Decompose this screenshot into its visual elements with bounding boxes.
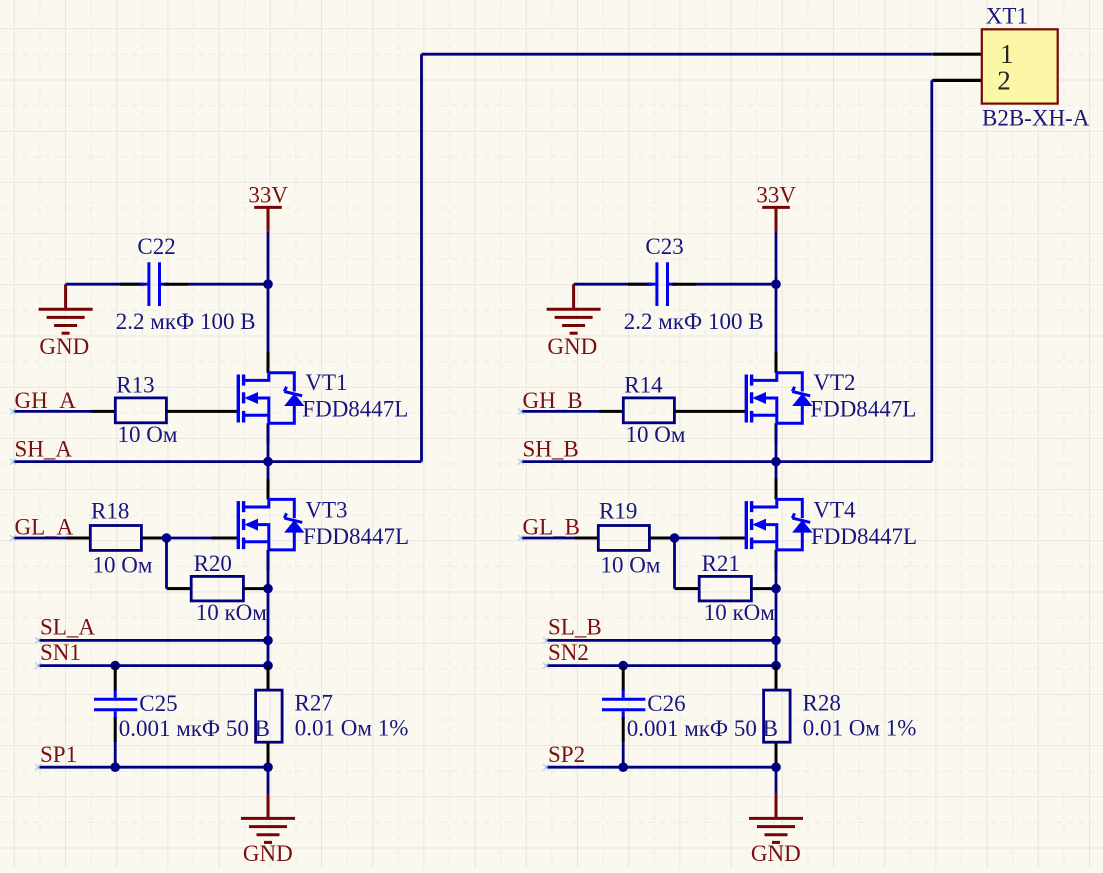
junction rail/SP2 [771, 762, 781, 772]
pin XT1.2 [933, 79, 982, 82]
ground GND bottom (A) [241, 793, 295, 842]
wire SP1 [38, 766, 268, 769]
pin VT3 source [267, 550, 270, 570]
wire GH_B [521, 410, 600, 413]
wire SL_B [546, 639, 776, 642]
wire C22 to rail [188, 283, 268, 286]
svg-text:10 Ом: 10 Ом [601, 553, 661, 578]
capacitor C26 [602, 690, 645, 720]
wire top SH_A to XT1 pin 1 [422, 53, 933, 56]
wire SP2 [546, 766, 776, 769]
pin R19.1 [574, 537, 598, 540]
svg-text:33V: 33V [248, 182, 288, 207]
wire SP2 node to ground [775, 767, 778, 794]
pin R27.1 [267, 666, 270, 691]
svg-text:GND: GND [243, 841, 293, 866]
resistor R21 [699, 576, 751, 601]
svg-text:GH_A: GH_A [15, 388, 77, 413]
pin VT1 source [267, 423, 270, 443]
wire SN2 [546, 664, 776, 667]
svg-text:2.2 мкФ 100 В: 2.2 мкФ 100 В [624, 309, 764, 334]
pin C22.2 [165, 283, 189, 286]
pin C22.1 [120, 283, 144, 286]
svg-text:R18: R18 [91, 499, 129, 524]
pin R18.1 [66, 537, 90, 540]
svg-text:10 кОм: 10 кОм [196, 600, 268, 625]
pin R28.1 [775, 666, 778, 691]
svg-text:SP2: SP2 [548, 742, 585, 767]
svg-text:GL_B: GL_B [523, 515, 581, 540]
pin R14.1 [599, 410, 623, 413]
pin VT4 drain [775, 479, 778, 500]
svg-text:R19: R19 [599, 499, 637, 524]
svg-text:C25: C25 [139, 691, 177, 716]
svg-text:B2B-XH-A: B2B-XH-A [982, 106, 1090, 131]
svg-text:SN2: SN2 [548, 640, 589, 665]
svg-text:10 Ом: 10 Ом [626, 422, 686, 447]
wire SN1 [38, 664, 268, 667]
junction rail/SL_A [263, 636, 273, 646]
pin C26.1 [622, 666, 625, 691]
junction SN1/C25 [110, 661, 120, 671]
svg-text:VT1: VT1 [305, 370, 347, 395]
pin R28.2 [775, 742, 778, 767]
pin C26.2 [622, 717, 625, 742]
wire SH_A [13, 460, 422, 463]
junction rail/R21 [771, 584, 781, 594]
svg-text:FDD8447L: FDD8447L [303, 524, 409, 549]
wire VT2 source to SH_B node [775, 423, 778, 461]
svg-text:FDD8447L: FDD8447L [302, 396, 408, 421]
wire GL_B [521, 537, 575, 540]
svg-text:XT1: XT1 [986, 4, 1028, 29]
wire R18 to gate of VT3 [167, 537, 213, 540]
pin R19.2 [649, 537, 674, 540]
pin R18.2 [141, 537, 166, 540]
pin C23.1 [628, 283, 652, 286]
wire VT1 source to SH_A node [267, 423, 270, 461]
wire C26 to SP2 [622, 742, 625, 767]
pin VT4 source [775, 550, 778, 570]
resistor R28 (shunt) [764, 690, 791, 742]
transistor VT2 FDD8447L [746, 373, 811, 424]
svg-text:0.001 мкФ 50 В: 0.001 мкФ 50 В [627, 716, 778, 741]
pin R20.1 [168, 587, 192, 590]
svg-text:GND: GND [547, 334, 597, 359]
svg-text:C23: C23 [645, 234, 683, 259]
svg-text:GH_B: GH_B [523, 388, 583, 413]
power port 33V (A) [254, 207, 282, 231]
wire GND to C22 [66, 283, 143, 286]
junction SP2/C26 [618, 762, 628, 772]
svg-text:0.01 Ом 1%: 0.01 Ом 1% [803, 715, 917, 740]
wire C23 to rail [696, 283, 776, 286]
junction rail/R20 [263, 584, 273, 594]
pin R13.2 / gate pin of VT1 [166, 410, 237, 413]
pin R21.2 [751, 587, 776, 590]
pin VT1 drain [267, 352, 270, 373]
wire corner to R20 [167, 587, 193, 590]
wire SP1 node to ground [267, 767, 270, 794]
junction rail/SP1 [263, 762, 273, 772]
connector XT1 body [982, 29, 1058, 103]
pin R21.1 [676, 587, 700, 590]
resistor R27 (shunt) [256, 690, 283, 742]
svg-text:R14: R14 [624, 373, 663, 398]
svg-text:FDD8447L: FDD8447L [810, 396, 916, 421]
svg-text:SP1: SP1 [40, 742, 77, 767]
junction GL_B/R21 [670, 533, 680, 543]
wire SH_B node to drain of VT4 [775, 462, 778, 500]
wire R19 to gate of VT4 [675, 537, 721, 540]
svg-text:VT3: VT3 [305, 498, 347, 523]
wire SL_A [38, 639, 268, 642]
wire SH_B vertical riser to XT1 pin 2 [930, 80, 933, 461]
svg-text:GND: GND [39, 334, 89, 359]
ground GND top (A) [39, 284, 93, 333]
wire SH_B corner at XT1 pin 2 [932, 79, 933, 82]
power port 33V (B) [762, 207, 790, 231]
svg-text:R20: R20 [194, 551, 232, 576]
svg-text:SH_B: SH_B [523, 437, 579, 462]
wire SH_A node to drain of VT3 [267, 462, 270, 500]
svg-text:GL_A: GL_A [15, 515, 74, 540]
pin VT3 drain [267, 479, 270, 500]
svg-text:SL_A: SL_A [40, 615, 95, 640]
resistor R19 [598, 526, 649, 551]
pin R13.1 [91, 410, 115, 413]
junction GL_A/R20 [162, 533, 172, 543]
wire 33V rail to drain of VT1 [267, 232, 270, 373]
wire GL_A [13, 537, 67, 540]
ground GND top (B) [547, 284, 601, 333]
svg-text:10 кОм: 10 кОм [704, 600, 776, 625]
pin C25.2 [114, 717, 117, 742]
wire VT4 source down rail [775, 550, 778, 666]
pin gate of VT3 [212, 537, 238, 540]
ground GND bottom (B) [749, 793, 803, 842]
junction SN2/C26 [618, 661, 628, 671]
pin C25.1 [114, 666, 117, 691]
wire VT3 source down rail [267, 550, 270, 666]
svg-text:33V: 33V [756, 182, 796, 207]
junction rail/SL_B [771, 636, 781, 646]
pin gate of VT4 [720, 537, 746, 540]
junction rail/SN2 [771, 661, 781, 671]
svg-text:SH_A: SH_A [15, 437, 73, 462]
svg-text:R13: R13 [116, 373, 154, 398]
wire GL_A branch down to R20 [165, 538, 168, 589]
capacitor C22 [140, 262, 169, 306]
transistor VT1 FDD8447L [238, 373, 303, 424]
svg-text:0.001 мкФ 50 В: 0.001 мкФ 50 В [119, 716, 270, 741]
junction rail/C22 [263, 279, 273, 289]
wire SH_B [521, 460, 932, 463]
svg-text:FDD8447L: FDD8447L [811, 524, 917, 549]
wire GL_B branch down to R21 [673, 538, 676, 589]
junction rail/SH_A [263, 457, 273, 467]
svg-text:0.01 Ом 1%: 0.01 Ом 1% [295, 715, 409, 740]
wire 33V rail to drain of VT2 [775, 232, 778, 373]
junction rail/C23 [771, 279, 781, 289]
pin VT2 source [775, 423, 778, 443]
resistor R20 [191, 576, 243, 601]
junction rail/SH_B [771, 457, 781, 467]
svg-text:VT4: VT4 [813, 498, 856, 523]
svg-text:10 Ом: 10 Ом [93, 553, 153, 578]
pin R14.2 / gate pin of VT2 [674, 410, 745, 413]
wire C25 to SP1 [114, 742, 117, 767]
pin R27.2 [267, 742, 270, 767]
resistor R14 [623, 398, 674, 423]
svg-text:R28: R28 [803, 691, 841, 716]
svg-text:C26: C26 [647, 691, 685, 716]
svg-text:GND: GND [751, 841, 801, 866]
svg-text:C22: C22 [137, 234, 175, 259]
wire corner to R21 [675, 587, 701, 590]
pin XT1.1 [933, 53, 982, 56]
pin C23.2 [673, 283, 697, 286]
svg-text:R21: R21 [702, 551, 740, 576]
svg-text:10 Ом: 10 Ом [118, 422, 178, 447]
junction rail/SN1 [263, 661, 273, 671]
transistor VT4 FDD8447L [746, 499, 811, 549]
wire SH_A vertical riser to XT1 pin 1 [420, 54, 423, 461]
svg-text:SN1: SN1 [40, 640, 81, 665]
svg-text:VT2: VT2 [813, 370, 855, 395]
wire GH_A [13, 410, 92, 413]
resistor R18 [90, 526, 141, 551]
svg-text:2: 2 [997, 66, 1011, 96]
svg-text:2.2 мкФ 100 В: 2.2 мкФ 100 В [116, 309, 256, 334]
capacitor C25 [94, 690, 137, 720]
svg-text:R27: R27 [295, 691, 333, 716]
pin R20.2 [243, 587, 268, 590]
resistor R13 [115, 398, 166, 423]
pin VT2 drain [775, 352, 778, 373]
capacitor C23 [648, 262, 677, 306]
wire GND to C23 [574, 283, 651, 286]
junction SP1/C25 [110, 762, 120, 772]
transistor VT3 FDD8447L [238, 499, 303, 549]
svg-text:SL_B: SL_B [548, 615, 602, 640]
